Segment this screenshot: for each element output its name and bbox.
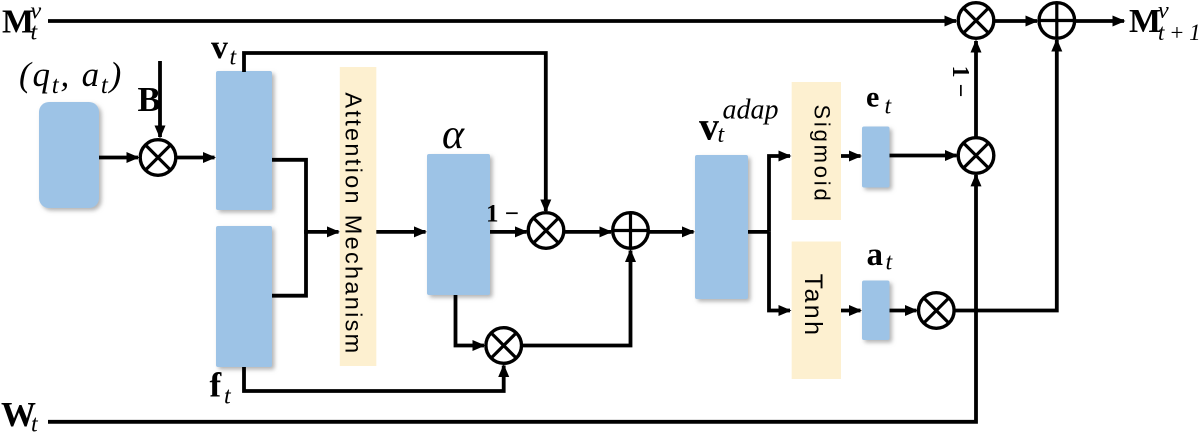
- wire input rect to multiply B: [99, 156, 138, 160]
- node input rect (q_t,a_t): [39, 102, 99, 208]
- multiply circle low-right: [919, 293, 955, 329]
- svg-text:1 −: 1 −: [486, 201, 519, 228]
- wire a_t to low-right multiply: [890, 309, 917, 313]
- wire e_t to right-mid multiply: [890, 154, 957, 158]
- svg-text:v: v: [211, 29, 228, 66]
- wire v_t right to bracket: [272, 160, 306, 234]
- adder circle mid: [613, 213, 649, 249]
- svg-text:v: v: [699, 104, 719, 149]
- svg-text:t: t: [224, 384, 232, 410]
- svg-text:t + 1: t + 1: [1158, 20, 1200, 45]
- svg-text:Attention Mechanism: Attention Mechanism: [341, 92, 367, 355]
- node sigmoid box: [792, 82, 841, 220]
- wire mid adder to v_adap rect: [649, 230, 694, 234]
- svg-text:M: M: [2, 4, 34, 41]
- node tanh box: [792, 242, 841, 380]
- wire bracket junction into attention box: [306, 230, 339, 234]
- node a_t rect: [862, 281, 890, 341]
- wire tanh to a_t rect: [841, 309, 861, 313]
- multiply circle right-mid: [958, 138, 994, 174]
- wire attention box to alpha rect: [376, 230, 425, 234]
- svg-text:t: t: [886, 250, 894, 276]
- node e_t rect: [862, 127, 890, 188]
- node alpha rect: [427, 154, 490, 295]
- adder circle top-right: [1039, 3, 1075, 39]
- svg-text:Tanh: Tanh: [799, 274, 827, 338]
- svg-text:α: α: [442, 112, 465, 158]
- wire W_t bottom line up into right-mid multiply: [48, 175, 976, 422]
- wire v_t top elbow to mid multiply: [244, 53, 546, 211]
- svg-text:t: t: [885, 94, 893, 120]
- wire sigmoid to e_t rect: [841, 154, 861, 158]
- svg-text:f: f: [210, 366, 222, 405]
- svg-text:M: M: [1129, 3, 1161, 40]
- wire mid multiply to mid adder: [564, 230, 611, 234]
- wire top multiply to top adder: [995, 19, 1037, 23]
- svg-text:(qt, at): (qt, at): [19, 55, 123, 99]
- svg-text:e: e: [866, 81, 879, 114]
- svg-text:t: t: [230, 45, 238, 71]
- node v_t rect: [216, 71, 272, 210]
- svg-text:a: a: [867, 237, 884, 273]
- multiply circle top-right: [958, 3, 994, 39]
- wire bracket up into sigmoid: [769, 156, 790, 232]
- svg-text:adap: adap: [723, 95, 779, 126]
- wire low multiply up into mid adder bottom: [522, 251, 631, 346]
- node v_adap rect: [695, 155, 748, 299]
- svg-text:Sigmoid: Sigmoid: [810, 104, 835, 203]
- multiply circle mid: [528, 213, 564, 249]
- wire M_t^v top line into top multiply: [48, 19, 956, 23]
- wire bracket down into tanh: [769, 232, 790, 311]
- wire v_adap right stub: [748, 230, 769, 234]
- wire top adder to output label: [1076, 19, 1124, 23]
- wire multiply-B to v_t rect: [176, 156, 215, 160]
- svg-text:t: t: [718, 122, 726, 148]
- wire f_t right to bracket: [272, 230, 306, 296]
- svg-text:1 −: 1 −: [947, 66, 973, 98]
- node attention mechanism box: [340, 67, 377, 366]
- wire right-mid multiply up into top multiply: [974, 41, 978, 137]
- multiply circle after B: [140, 140, 176, 176]
- svg-text:t: t: [31, 412, 39, 434]
- svg-text:B: B: [138, 80, 161, 119]
- wire f_t bottom elbow into low multiply: [244, 366, 504, 392]
- wire alpha to mid multiply: [490, 230, 527, 234]
- shadow-filter: [0, 0, 1, 1]
- wire alpha down-elbow into low multiply: [456, 295, 485, 346]
- node f_t rect: [216, 226, 272, 367]
- wire low-right multiply up into top adder: [954, 40, 1057, 311]
- multiply circle low: [486, 328, 522, 364]
- wire B down-arrow: [158, 61, 162, 137]
